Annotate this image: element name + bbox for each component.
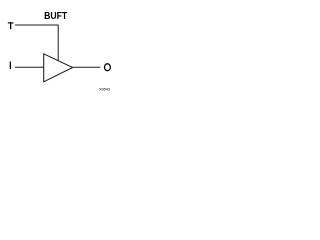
svg-text:BUFT: BUFT bbox=[44, 10, 67, 22]
svg-text:X9543: X9543 bbox=[99, 86, 111, 91]
